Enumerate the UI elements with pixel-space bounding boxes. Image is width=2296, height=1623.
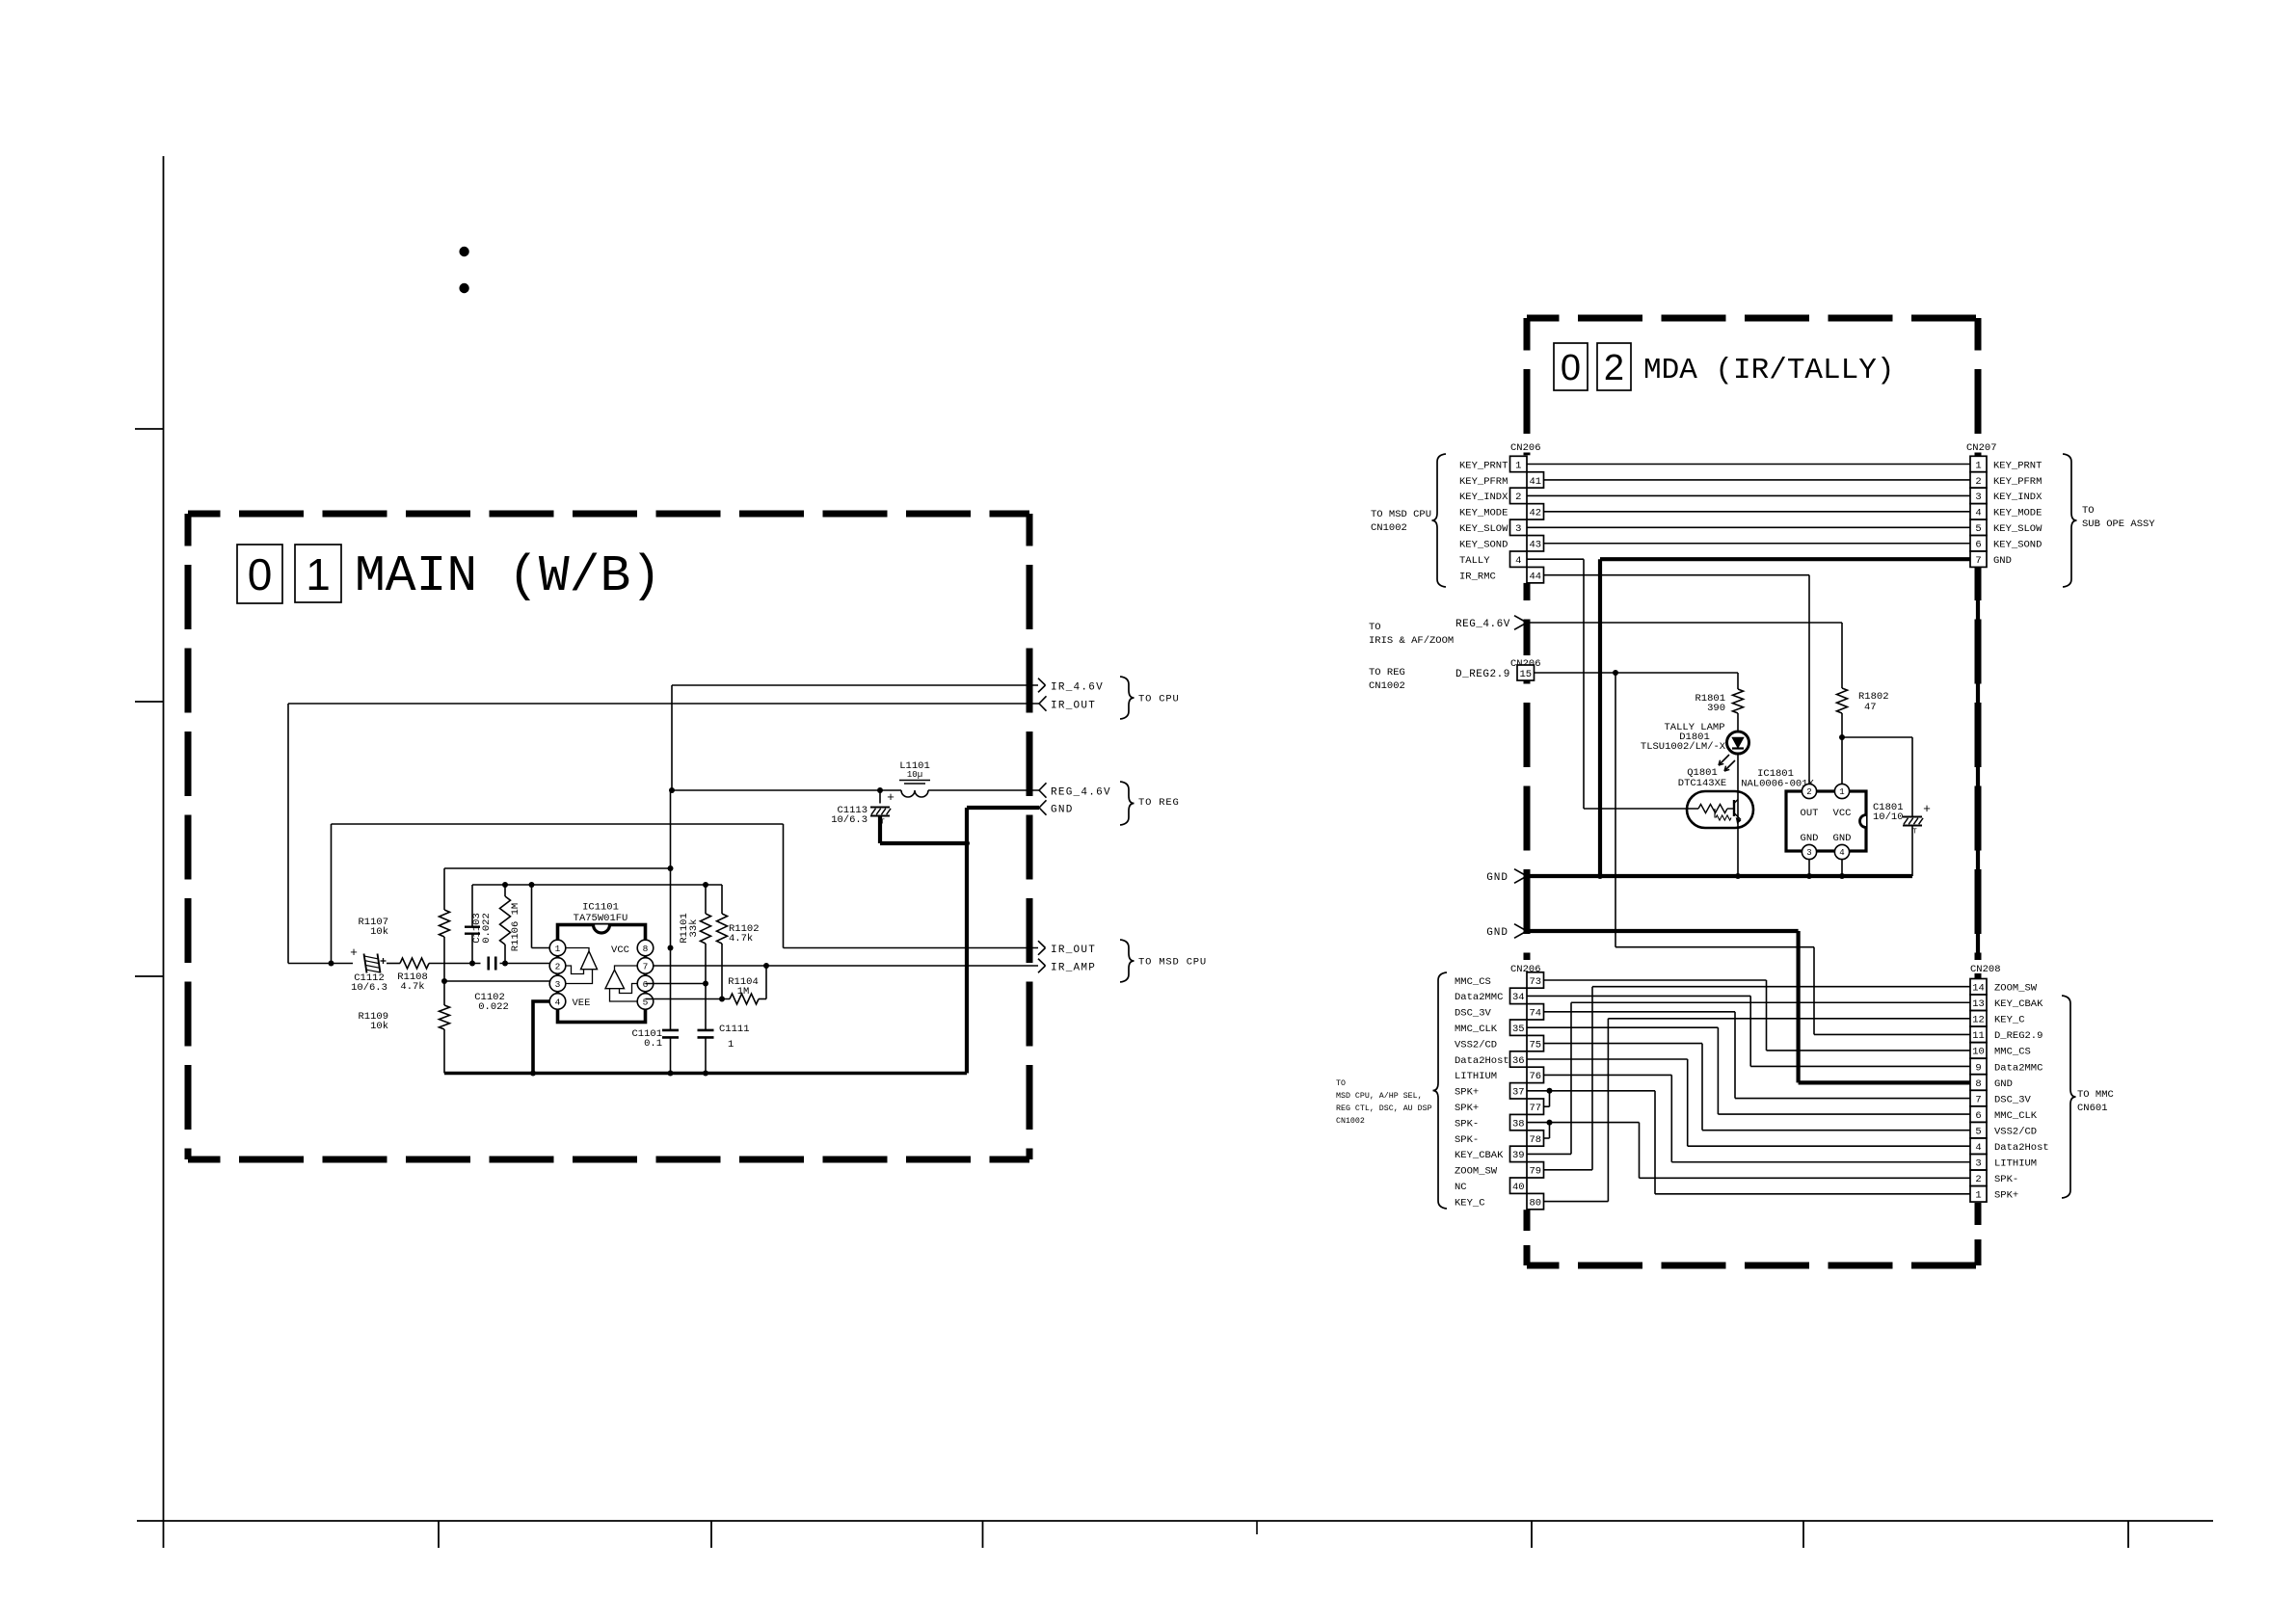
svg-text:KEY_SLOW: KEY_SLOW [1993, 523, 2042, 535]
svg-text:KEY_INDX: KEY_INDX [1993, 492, 2042, 503]
svg-text:IRIS & AF/ZOOM: IRIS & AF/ZOOM [1369, 635, 1454, 647]
svg-text:2: 2 [1975, 1174, 1981, 1185]
svg-text:MMC_CLK: MMC_CLK [1455, 1024, 1498, 1035]
svg-text:2: 2 [555, 961, 561, 971]
svg-text:0.022: 0.022 [478, 1001, 509, 1013]
svg-text:LITHIUM: LITHIUM [1994, 1158, 2037, 1170]
svg-text:TO: TO [2082, 505, 2095, 517]
svg-text:5: 5 [1975, 523, 1981, 535]
svg-text:KEY_INDX: KEY_INDX [1459, 492, 1508, 503]
svg-text:CN1002: CN1002 [1371, 522, 1407, 534]
svg-text:Data2MMC: Data2MMC [1994, 1062, 2042, 1074]
svg-text:6: 6 [1975, 1110, 1981, 1122]
svg-text:TO: TO [1369, 622, 1381, 633]
svg-text:VCC: VCC [1833, 808, 1852, 819]
svg-text:VSS2/CD: VSS2/CD [1455, 1039, 1497, 1051]
svg-text:CN207: CN207 [1966, 442, 1997, 454]
svg-text:0: 0 [248, 549, 273, 599]
svg-text:5: 5 [1975, 1126, 1981, 1137]
svg-text:SPK-: SPK- [1455, 1118, 1479, 1130]
svg-text:CN1002: CN1002 [1369, 680, 1405, 692]
svg-text:KEY_MODE: KEY_MODE [1459, 508, 1508, 519]
svg-text:VCC: VCC [611, 945, 629, 956]
svg-text:MAIN (W/B): MAIN (W/B) [355, 547, 661, 605]
svg-text:4: 4 [1975, 1142, 1981, 1154]
svg-text:1: 1 [306, 549, 331, 599]
svg-text:7: 7 [643, 961, 649, 971]
svg-text:4: 4 [1839, 848, 1844, 858]
svg-text:44: 44 [1529, 571, 1541, 582]
svg-text:NC: NC [1455, 1182, 1467, 1193]
svg-text:GND: GND [1833, 833, 1852, 844]
svg-text:TO REG: TO REG [1369, 667, 1405, 678]
svg-text:C1111: C1111 [719, 1024, 750, 1035]
svg-text:1M: 1M [737, 986, 750, 998]
svg-text:10: 10 [1972, 1047, 1985, 1058]
svg-text:OUT: OUT [1801, 808, 1819, 819]
svg-text:76: 76 [1529, 1071, 1541, 1082]
svg-text:4: 4 [1515, 555, 1521, 567]
svg-text:KEY_PFRM: KEY_PFRM [1993, 476, 2042, 488]
svg-text:CN206: CN206 [1510, 442, 1541, 454]
svg-text:ZOOM_SW: ZOOM_SW [1994, 983, 2038, 995]
svg-text:DSC_3V: DSC_3V [1455, 1008, 1492, 1020]
svg-text:1: 1 [555, 944, 561, 954]
svg-text:7: 7 [1975, 555, 1981, 567]
svg-text:10µ: 10µ [907, 770, 922, 780]
svg-text:77: 77 [1529, 1103, 1541, 1114]
svg-text:TLSU1002/LM/-X: TLSU1002/LM/-X [1641, 741, 1726, 753]
svg-text:IR_4.6V: IR_4.6V [1051, 682, 1104, 694]
svg-text:7: 7 [1975, 1094, 1981, 1105]
svg-text:42: 42 [1529, 508, 1541, 519]
svg-text:GND: GND [1801, 833, 1819, 844]
svg-text:D_REG2.9: D_REG2.9 [1455, 669, 1510, 680]
svg-text:2: 2 [1604, 348, 1624, 388]
svg-text:33k: 33k [688, 919, 700, 938]
svg-text:2: 2 [1515, 492, 1521, 503]
svg-text:8: 8 [643, 944, 649, 954]
svg-text:1: 1 [1975, 1190, 1981, 1202]
svg-text:79: 79 [1529, 1166, 1541, 1178]
svg-text:SPK+: SPK+ [1994, 1190, 2018, 1202]
svg-text:Data2Host: Data2Host [1455, 1055, 1509, 1067]
svg-text:12: 12 [1972, 1015, 1985, 1026]
svg-text:KEY_C: KEY_C [1455, 1197, 1485, 1209]
svg-text:40: 40 [1512, 1182, 1525, 1193]
svg-text:R1106 1M: R1106 1M [510, 903, 521, 951]
svg-text:73: 73 [1529, 976, 1541, 988]
svg-text:14: 14 [1972, 983, 1985, 995]
svg-text:38: 38 [1512, 1118, 1525, 1130]
svg-text:15: 15 [1519, 669, 1532, 680]
svg-text:0.1: 0.1 [644, 1038, 662, 1050]
svg-text:4: 4 [1975, 508, 1981, 519]
svg-text:39: 39 [1512, 1150, 1525, 1161]
svg-text:SPK+: SPK+ [1455, 1103, 1479, 1114]
svg-text:3: 3 [555, 979, 561, 990]
svg-text:2: 2 [1975, 476, 1981, 488]
svg-text:GND: GND [1486, 927, 1508, 939]
svg-text:SPK-: SPK- [1455, 1134, 1479, 1146]
svg-text:DTC143XE: DTC143XE [1678, 778, 1726, 789]
svg-text:TALLY: TALLY [1459, 555, 1490, 567]
svg-text:TA75W01FU: TA75W01FU [574, 913, 628, 924]
svg-text:ZOOM_SW: ZOOM_SW [1455, 1166, 1498, 1178]
svg-text:Data2Host: Data2Host [1994, 1142, 2049, 1154]
svg-text:CN208: CN208 [1970, 964, 2001, 975]
svg-text:IC1101: IC1101 [582, 902, 619, 914]
svg-text:MMC_CS: MMC_CS [1455, 976, 1491, 988]
svg-text:4.7k: 4.7k [400, 981, 424, 993]
svg-text:TO CPU: TO CPU [1138, 694, 1180, 705]
svg-text:4.7k: 4.7k [729, 933, 753, 945]
svg-text:Data2MMC: Data2MMC [1455, 992, 1503, 1003]
svg-text:34: 34 [1512, 992, 1525, 1003]
svg-text:KEY_PRNT: KEY_PRNT [1459, 460, 1508, 471]
svg-text:1: 1 [1515, 460, 1521, 471]
svg-text:TO MSD CPU: TO MSD CPU [1138, 957, 1207, 969]
svg-text:3: 3 [1806, 848, 1811, 858]
svg-text:10k: 10k [370, 1021, 388, 1032]
svg-text:3: 3 [1975, 492, 1981, 503]
svg-text:+: + [1923, 802, 1931, 816]
svg-text:2: 2 [1806, 787, 1811, 797]
svg-text:47: 47 [1864, 702, 1877, 713]
svg-text:43: 43 [1529, 540, 1541, 551]
svg-text:74: 74 [1529, 1008, 1541, 1020]
svg-text:10/6.3: 10/6.3 [351, 982, 387, 994]
svg-text:KEY_C: KEY_C [1994, 1015, 2025, 1026]
svg-text:MSD CPU, A/HP SEL,: MSD CPU, A/HP SEL, [1336, 1091, 1423, 1101]
svg-text:TO: TO [1336, 1079, 1346, 1088]
svg-text:KEY_CBAK: KEY_CBAK [1455, 1150, 1504, 1161]
svg-text:10k: 10k [370, 926, 388, 938]
svg-text:SPK-: SPK- [1994, 1174, 2018, 1185]
svg-text:VSS2/CD: VSS2/CD [1994, 1126, 2037, 1137]
svg-text:CN1002: CN1002 [1336, 1117, 1365, 1126]
svg-text:GND: GND [1051, 805, 1074, 816]
svg-text:D_REG2.9: D_REG2.9 [1994, 1030, 2042, 1042]
svg-text:GND: GND [1486, 872, 1508, 884]
svg-text:KEY_PRNT: KEY_PRNT [1993, 460, 2042, 471]
svg-text:78: 78 [1529, 1134, 1541, 1146]
svg-text:10/6.3: 10/6.3 [831, 814, 868, 826]
svg-text:SUB OPE ASSY: SUB OPE ASSY [2082, 519, 2155, 530]
svg-text:6: 6 [1975, 540, 1981, 551]
svg-text:LITHIUM: LITHIUM [1455, 1071, 1497, 1082]
svg-text:IR_AMP: IR_AMP [1051, 963, 1096, 974]
svg-text:CN601: CN601 [2077, 1103, 2108, 1114]
svg-text:1: 1 [1839, 787, 1844, 797]
svg-text:REG CTL, DSC, AU DSP: REG CTL, DSC, AU DSP [1336, 1104, 1432, 1113]
svg-text:13: 13 [1972, 998, 1985, 1010]
svg-text:390: 390 [1707, 703, 1725, 714]
svg-text:MMC_CLK: MMC_CLK [1994, 1110, 2038, 1122]
svg-text:80: 80 [1529, 1197, 1541, 1209]
svg-text:8: 8 [1975, 1078, 1981, 1090]
svg-text:TO REG: TO REG [1138, 797, 1180, 809]
svg-text:36: 36 [1512, 1055, 1525, 1067]
svg-text:IR_OUT: IR_OUT [1051, 701, 1096, 712]
svg-text:KEY_SOND: KEY_SOND [1459, 540, 1508, 551]
svg-text:10/10: 10/10 [1873, 811, 1904, 823]
svg-text:+: + [350, 945, 358, 960]
svg-text:75: 75 [1529, 1039, 1541, 1051]
svg-text:KEY_CBAK: KEY_CBAK [1994, 998, 2043, 1010]
svg-text:REG_4.6V: REG_4.6V [1455, 619, 1510, 630]
svg-text:KEY_PFRM: KEY_PFRM [1459, 476, 1508, 488]
svg-text:3: 3 [1515, 523, 1521, 535]
svg-text:9: 9 [1975, 1062, 1981, 1074]
svg-text:REG_4.6V: REG_4.6V [1051, 787, 1111, 799]
svg-text:35: 35 [1512, 1024, 1525, 1035]
svg-text:0: 0 [1561, 348, 1581, 388]
svg-text:KEY_MODE: KEY_MODE [1993, 508, 2042, 519]
svg-text:IR_RMC: IR_RMC [1459, 571, 1496, 582]
svg-text:GND: GND [1993, 555, 2012, 567]
svg-text:MMC_CS: MMC_CS [1994, 1047, 2031, 1058]
svg-text:0.022: 0.022 [481, 913, 493, 944]
svg-text:11: 11 [1972, 1030, 1985, 1042]
svg-text:1: 1 [728, 1039, 734, 1051]
svg-text:+: + [887, 790, 894, 805]
svg-text:T: T [1912, 829, 1917, 837]
svg-text:3: 3 [1975, 1158, 1981, 1170]
svg-text:TO MSD CPU: TO MSD CPU [1371, 509, 1431, 520]
svg-text:DSC_3V: DSC_3V [1994, 1094, 2032, 1105]
svg-text:SPK+: SPK+ [1455, 1087, 1479, 1099]
svg-text:6: 6 [643, 979, 649, 990]
svg-text:KEY_SLOW: KEY_SLOW [1459, 523, 1508, 535]
svg-text:KEY_SOND: KEY_SOND [1993, 540, 2042, 551]
svg-text:1: 1 [1975, 460, 1981, 471]
svg-text:TO MMC: TO MMC [2077, 1089, 2114, 1101]
svg-text:MDA (IR/TALLY): MDA (IR/TALLY) [1643, 354, 1894, 387]
svg-text:4: 4 [555, 997, 561, 1007]
svg-text:41: 41 [1529, 476, 1541, 488]
svg-text:GND: GND [1994, 1078, 2013, 1090]
svg-text:37: 37 [1512, 1087, 1525, 1099]
svg-text:IR_OUT: IR_OUT [1051, 945, 1096, 956]
svg-text:VEE: VEE [573, 998, 591, 1009]
